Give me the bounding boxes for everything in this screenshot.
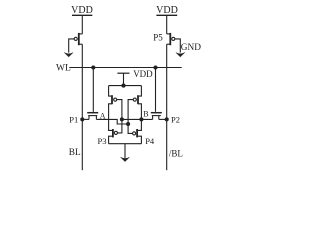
wire VDD top-right stem <box>166 15 168 34</box>
wire left bus to P3 gate <box>117 124 121 133</box>
svg-text:A: A <box>100 111 106 120</box>
wire gate of upper-left load to left bus <box>117 100 122 120</box>
svg-text:B: B <box>143 110 148 119</box>
label P1 <box>69 115 78 125</box>
svg-text:VDD: VDD <box>156 5 178 16</box>
wire inner VDD stem <box>123 73 125 85</box>
ground arrow (top-left) <box>64 53 73 57</box>
svg-text:VDD: VDD <box>133 69 153 79</box>
wire P2 gate tap <box>155 68 157 112</box>
transistor upper-right load <box>133 86 141 120</box>
node VDD (top left label) <box>71 5 93 16</box>
wire BL to P1 source <box>82 118 89 120</box>
wire right bus to P4 gate <box>128 124 132 133</box>
wire gate of top-left pmos <box>69 39 75 53</box>
wire D1 stub down <box>121 119 123 124</box>
label P5 <box>153 33 163 43</box>
wire gate of P5 <box>175 39 181 53</box>
svg-text:P5: P5 <box>153 33 163 43</box>
label GND <box>181 43 201 53</box>
svg-text:VDD: VDD <box>71 5 93 16</box>
label WL <box>56 63 71 73</box>
label VDD (inner) <box>133 69 153 79</box>
transistor upper-left load <box>109 86 117 120</box>
ground arrow (top-right GND) <box>176 53 185 57</box>
node D1 left bus on node-B line <box>120 117 124 121</box>
label P2 <box>171 115 180 125</box>
wire node A horizontal <box>96 119 128 124</box>
wire gate of upper-right load to right bus <box>128 100 133 124</box>
wire VDD top-left rail bar <box>72 14 92 16</box>
node D3 upper-right drain on node-B line <box>139 117 143 121</box>
label A <box>100 111 106 120</box>
node inner VDD junction on rail <box>121 84 125 88</box>
node WL-P2 gate junction <box>153 65 157 69</box>
svg-text:P2: P2 <box>171 115 180 125</box>
ground arrow (bottom center) <box>121 157 130 161</box>
svg-text:P4: P4 <box>145 136 155 146</box>
transistor P1 (access) <box>87 113 98 120</box>
transistor top-left pmos <box>74 33 82 45</box>
svg-text:BL: BL <box>69 148 81 158</box>
wire ground stem <box>124 144 126 158</box>
wire VDD top-left stem <box>81 15 83 34</box>
transistor P4 <box>133 119 142 143</box>
svg-text:WL: WL <box>56 63 71 73</box>
svg-text:P3: P3 <box>98 136 107 146</box>
node /BL-P2 junction <box>165 117 169 121</box>
label P3 <box>98 136 107 146</box>
label P4 <box>145 136 155 146</box>
wire VDD top-right rail bar <box>156 14 177 16</box>
transistor P3 <box>109 119 118 143</box>
node WL-P1 gate junction <box>91 65 95 69</box>
label /BL <box>169 148 183 158</box>
label BL <box>69 148 81 158</box>
wire /BL vertical <box>166 44 168 170</box>
svg-text:/BL: /BL <box>169 148 183 158</box>
wire inner VDD tick bar <box>117 72 129 74</box>
svg-text:P1: P1 <box>69 115 78 125</box>
wire WL horizontal <box>69 67 181 69</box>
wire node B horizontal <box>122 118 153 120</box>
wire inner top rail <box>109 85 142 87</box>
wire P1 gate tap <box>92 68 94 112</box>
node BL-P1 junction <box>80 117 84 121</box>
transistor P5 <box>167 33 175 45</box>
svg-text:GND: GND <box>181 43 201 53</box>
node VDD (top right label) <box>156 5 178 16</box>
label B <box>143 110 148 119</box>
wire inner bottom rail <box>109 143 142 145</box>
transistor P2 (access) <box>151 113 162 120</box>
wire P2 drain to /BL <box>159 118 167 120</box>
node D2 node-A to right bus <box>126 122 130 126</box>
wire BL vertical <box>81 44 83 170</box>
